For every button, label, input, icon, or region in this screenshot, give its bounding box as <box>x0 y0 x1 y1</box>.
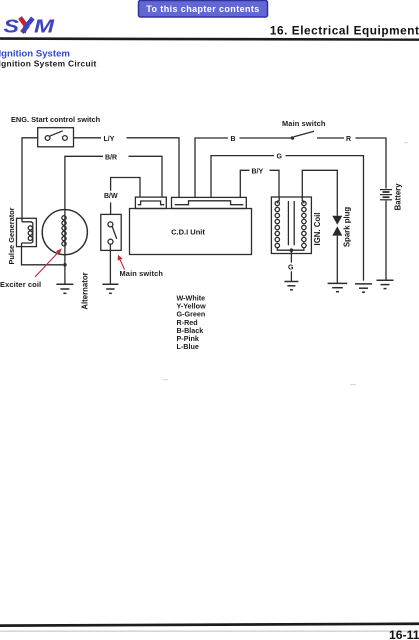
wire: battery to ground <box>385 201 387 280</box>
wire: G to ground <box>290 271 292 281</box>
ground (G return) <box>355 284 372 292</box>
wire: CDI right tab to B <box>195 138 228 197</box>
spark plug <box>332 216 342 236</box>
wire: R to battery <box>356 138 387 189</box>
footer rule <box>0 622 419 627</box>
svg-text:Battery: Battery <box>394 183 403 211</box>
pulse generator <box>17 218 37 246</box>
svg-text:16-11: 16-11 <box>389 628 419 640</box>
junction node <box>63 263 67 267</box>
ground (alternator) <box>56 284 73 293</box>
scan specks <box>163 142 408 385</box>
wire: main switch box to B/W <box>110 202 112 214</box>
CDI unit <box>130 209 252 255</box>
SYM logo <box>4 16 56 37</box>
svg-text:M: M <box>34 16 55 37</box>
battery <box>380 190 392 200</box>
main switch lever <box>294 131 314 137</box>
svg-text:To this chapter contents: To this chapter contents <box>146 4 259 14</box>
header rule <box>0 37 419 41</box>
CDI right connector tab <box>172 197 247 208</box>
wire: CDI right tab to G <box>211 156 274 198</box>
svg-text:S: S <box>4 16 19 36</box>
wire: coil to G label <box>290 250 292 262</box>
ground (spark plug) <box>328 283 348 291</box>
svg-text:IGN. Coil: IGN. Coil <box>313 213 322 246</box>
main switch contact dot <box>291 136 294 139</box>
svg-text:B/R: B/R <box>105 154 117 161</box>
wire: B/W to CDI left tab <box>111 178 140 198</box>
wire colour legend <box>177 294 207 352</box>
svg-text:Main switch: Main switch <box>120 269 164 278</box>
svg-text:Ignition System Circuit: Ignition System Circuit <box>0 58 97 68</box>
wire: main switch to ground <box>109 244 111 283</box>
wire: ENG switch left to pulse generator <box>22 138 38 219</box>
ENG start control switch <box>38 128 74 147</box>
svg-text:G: G <box>277 154 283 161</box>
ground (coil G) <box>284 282 298 290</box>
footer rule echo <box>0 631 419 632</box>
svg-text:Main switch: Main switch <box>282 119 326 128</box>
svg-text:R: R <box>346 136 351 143</box>
wire: spark plug to ground <box>336 236 338 283</box>
svg-text:B: B <box>231 136 236 143</box>
wire: B/R to CDI left tab <box>129 156 163 197</box>
svg-text:B/W: B/W <box>104 193 118 200</box>
ground (main switch) <box>102 284 118 293</box>
alternator <box>42 210 87 255</box>
wire: alternator to B/R <box>65 156 103 209</box>
wire: B/Y to ignition coil <box>270 170 280 197</box>
wire: pulse generator to alternator junction <box>22 247 64 265</box>
svg-text:Pulse Generator: Pulse Generator <box>7 207 16 264</box>
svg-text:B/Y: B/Y <box>252 168 264 175</box>
svg-text:C.D.I Unit: C.D.I Unit <box>171 228 205 237</box>
svg-text:G: G <box>288 265 294 272</box>
wire: G to right ground drop <box>286 156 364 281</box>
main switch (ignition) box <box>101 214 121 250</box>
svg-text:Exciter coil: Exciter coil <box>0 280 41 289</box>
wire: switch to R <box>317 137 344 139</box>
CDI left connector tab <box>135 197 166 208</box>
ignition coil <box>271 197 311 254</box>
wire: coil secondary to spark plug <box>302 170 337 216</box>
wire: B to main switch dot <box>240 137 292 139</box>
wire: L/Y to CDI right tab <box>127 138 180 197</box>
wire: CDI right tab to B/Y <box>240 170 249 197</box>
main switch arrow <box>118 255 125 270</box>
chapter contents button <box>139 1 268 18</box>
wire: alternator to ground <box>64 255 66 284</box>
svg-text:Spark plug: Spark plug <box>342 207 351 248</box>
svg-text:L/Y: L/Y <box>104 136 115 143</box>
wire: ENG switch to L/Y <box>74 137 102 139</box>
coil bottom junction <box>290 248 294 252</box>
svg-text:16. Electrical Equipment: 16. Electrical Equipment <box>270 23 419 37</box>
svg-text:ENG. Start control switch: ENG. Start control switch <box>11 115 101 124</box>
ground (battery) <box>377 280 394 288</box>
svg-text:Alternator: Alternator <box>80 272 89 309</box>
svg-text:L-Blue: L-Blue <box>177 342 199 351</box>
exciter coil arrow <box>35 248 62 277</box>
